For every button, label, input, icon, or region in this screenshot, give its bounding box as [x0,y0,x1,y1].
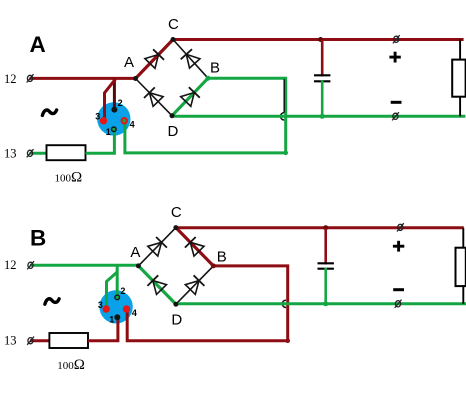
svg-text:A: A [30,32,46,57]
wire: node C to + terminal (top rail, dark red) [176,226,464,229]
resistor R1 100 ohm [49,333,88,348]
junction dot: top rail to capacitor [323,225,328,230]
wire: junction to switch pin 2 [116,265,119,297]
output + label [393,241,404,252]
wire hop (no-connection) at loop crossing bottom rail [281,79,285,120]
bridge node C [173,225,178,230]
switch pin 1 [114,314,120,320]
bridge edge D-B (thin) [176,266,214,304]
output + label [389,52,400,63]
output - label [393,288,404,291]
junction dot: top rail to capacitor [318,37,323,42]
bridge edge C-B (thin) [176,228,214,266]
svg-text:4: 4 [130,120,135,130]
rotary switch S1 body [99,290,132,323]
wire: conduction path B to C (dark red) [176,228,214,266]
wire: + rail to load resistor [462,228,464,248]
wire: load resistor to - rail [459,97,461,117]
switch pin 2 [111,107,117,113]
capacitor C1 [318,263,334,268]
output - label [391,101,402,104]
svg-text:A: A [124,54,134,71]
wire: input 12 to bridge node A [30,77,136,80]
bridge node B [211,263,216,268]
connector phi on - rail [392,112,399,120]
bridge edge C-B (thin) [173,40,208,79]
svg-text:D: D [168,123,179,140]
svg-text:13: 13 [4,146,17,160]
rotary switch S1 body [97,102,130,135]
svg-text:B: B [30,226,46,251]
svg-text:C: C [171,204,182,221]
bridge node C [171,37,176,42]
wire: 13 to resistor [30,152,47,155]
switch pin 3 [100,117,107,124]
connector phi on - rail [395,300,402,308]
junction dot on loop corner [283,151,288,156]
svg-text:100Ω: 100Ω [55,170,83,186]
svg-text:1: 1 [106,127,111,137]
bridge edge A-C (thin) [138,228,176,266]
diode D3 (D to A) [144,87,163,106]
svg-text:D: D [171,312,182,329]
junction dot on loop corner [285,338,290,343]
diode D3 (D to A) [147,275,166,294]
bridge node D [170,113,175,118]
connector phi on + rail [393,35,400,43]
connector phi on terminal 12 [27,74,34,82]
diode D1 (A to C) [148,237,167,256]
wire: node D to - terminal (bottom rail, green) [172,115,465,118]
wire: junction to switch pin 3 [107,272,118,309]
connector phi on terminal 13 [27,337,34,345]
svg-text:3: 3 [98,300,103,310]
switch pin 4 [121,117,128,124]
wire: switch pin 4 to bridge node B (return loop) [127,266,288,341]
wire: capacitor top lead (dark red) [324,228,327,265]
switch pin 4 [123,305,130,312]
wire: conduction path D to B (green) [172,78,208,116]
bridge node A [133,76,138,81]
svg-text:2: 2 [120,286,125,296]
switch pin 1 [111,126,117,132]
wire: input 12 to bridge node A [30,264,138,267]
circuit panel B (negative half-cycle) [4,204,466,373]
AC source symbol ~ [45,299,59,304]
wire: resistor to switch pin 1 [88,317,118,341]
wire hop (no-connection) at loop crossing bottom rail [282,300,286,307]
wire: switch pin 4 to bridge node B (return loop) [125,78,286,153]
diode D2 (B to C) [185,237,204,256]
switch pin 3 [103,305,110,312]
svg-text:12: 12 [4,258,17,272]
svg-text:12: 12 [4,72,17,86]
bridge edge A-C (thin) [136,40,174,79]
wire: capacitor bottom lead (green) [321,80,324,116]
diode D4 (D to B) [181,87,200,106]
switch pin 2 [114,294,120,300]
svg-text:C: C [168,16,179,33]
svg-text:1: 1 [109,315,114,325]
wire: node D to - terminal (bottom rail, green) [176,302,466,305]
bridge edge A-D (thin) [138,266,176,304]
svg-text:100Ω: 100Ω [57,357,85,373]
wire: capacitor bottom lead (green) [324,268,327,304]
wire: 13 to resistor [30,339,49,342]
svg-text:2: 2 [118,98,123,108]
resistor R1 100 ohm [47,145,86,160]
junction dot: capacitor to bottom rail [323,301,328,306]
wire: conduction path A to C (dark red) [136,40,174,79]
svg-text:4: 4 [132,308,137,318]
connector phi on terminal 13 [27,149,34,157]
AC source symbol ~ [42,110,56,115]
wire: conduction path A to D (green) [138,266,176,304]
svg-text:3: 3 [95,112,100,122]
capacitor C1 [314,75,330,81]
junction dot: capacitor to bottom rail [320,114,325,119]
bridge node A [136,263,141,268]
wire: + rail to load resistor [459,40,461,60]
wire: junction to switch pin 3 [105,78,117,120]
svg-text:B: B [210,60,220,77]
bridge node D [173,302,178,307]
connector phi on terminal 12 [27,261,34,269]
svg-text:13: 13 [4,334,17,348]
circuit panel A (positive half-cycle) [4,16,466,186]
wire: resistor to switch pin 1 [86,129,115,153]
connector phi on + rail [397,223,404,231]
wire: capacitor top lead (dark red) [321,40,324,77]
wire: load resistor to - rail [462,286,464,304]
bridge edge D-B (thin) [172,78,208,116]
svg-text:A: A [130,244,140,261]
wire: node C to + terminal (top rail, dark red) [173,38,464,41]
bridge node B [206,76,211,81]
bridge edge A-D (thin) [136,79,173,116]
diode D2 (B to C) [181,49,200,68]
wire: junction to switch pin 2 [113,78,116,109]
load resistor RL [456,248,466,286]
load resistor RL [452,60,465,97]
svg-text:B: B [217,249,227,266]
diode D1 (A to C) [145,49,164,68]
diode D4 (D to B) [185,275,204,294]
